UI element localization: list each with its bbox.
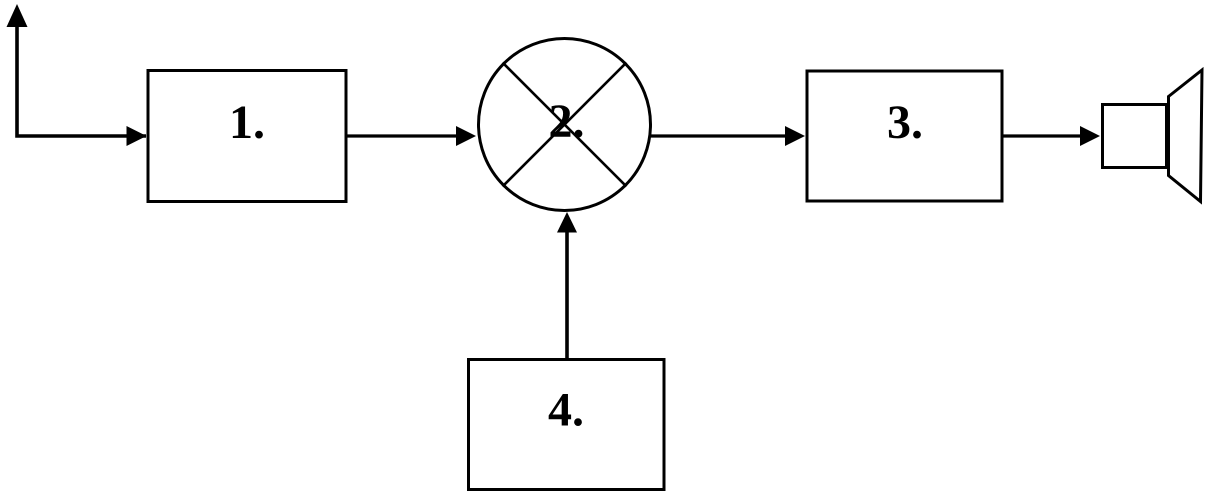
svg-text:3.: 3. bbox=[887, 96, 923, 149]
mixer U2 circle bbox=[479, 39, 651, 211]
wire block 3 to speaker bbox=[1002, 134, 1081, 137]
antenna arrowhead bbox=[7, 4, 28, 27]
arrowhead into block 3 bbox=[785, 126, 805, 146]
wire block1 to mixer bbox=[346, 134, 457, 137]
svg-text:2.: 2. bbox=[549, 95, 585, 148]
block 1 (RF amplifier) bbox=[148, 71, 346, 202]
svg-text:4.: 4. bbox=[548, 384, 584, 437]
wire block 4 to mixer bbox=[565, 232, 569, 358]
arrowhead into block 1 bbox=[127, 126, 147, 146]
block 4 (local oscillator) bbox=[469, 360, 665, 490]
arrowhead into mixer bottom bbox=[557, 212, 577, 233]
block 3 (AF amplifier) bbox=[807, 71, 1002, 201]
wire mixer to block 3 bbox=[651, 134, 786, 137]
arrowhead into speaker bbox=[1080, 126, 1100, 146]
mixer diagonal 2 bbox=[503, 63, 627, 187]
svg-text:1.: 1. bbox=[229, 96, 265, 149]
speaker driver rectangle bbox=[1103, 105, 1167, 168]
arrowhead into mixer bbox=[456, 126, 476, 146]
antenna bbox=[17, 26, 146, 136]
mixer diagonal 1 bbox=[503, 63, 627, 187]
speaker horn bbox=[1169, 70, 1203, 202]
